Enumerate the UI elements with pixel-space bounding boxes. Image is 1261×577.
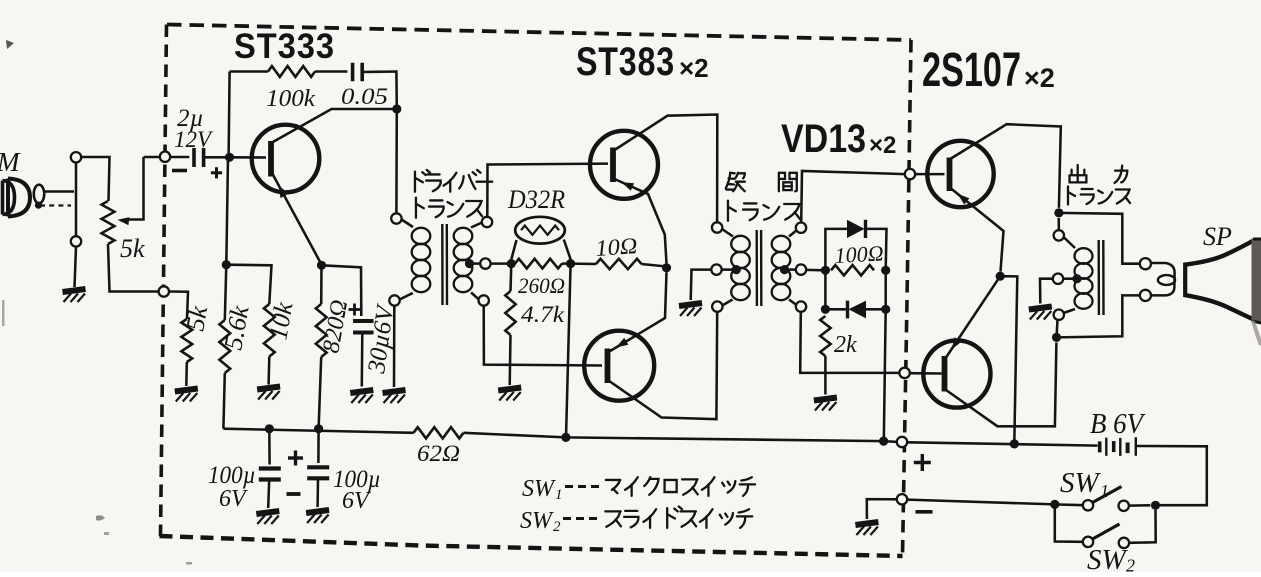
paper speck (top left) [6,40,14,49]
resistor 10k [264,304,275,357]
wire primary CT to ground [691,270,712,300]
wire center tap to terminal [470,262,481,265]
ST333 emitter arrowhead [279,185,289,198]
wire driver primary to ground [393,306,396,387]
label interstage line2 (katakana toransu) [728,201,736,221]
wire collector node to transistor [272,109,397,143]
output transformer primary winding [1075,248,1093,264]
node dot (rail / emitter feed) [1010,439,1019,448]
wire 2k to ground [824,356,827,395]
svg-text:260Ω: 260Ω [518,273,565,298]
label plus (battery rail) [914,461,931,464]
transistor 2S107 (Q5 bottom) [923,340,990,407]
wire SW1 to right node [1129,504,1150,507]
wire diode 1 to node B [866,229,887,270]
dashed enclosure border (right edge) [903,40,912,556]
svg-text:1: 1 [555,487,563,503]
wire secondary bottom to terminal [471,293,479,300]
driver transformer secondary center-tap terminal [480,258,490,268]
legend SW1 text (katakana micro switch) [606,480,620,493]
wire 0.05 to collector node [362,72,397,110]
driver transformer primary terminal (bottom) [389,295,399,305]
wire D32R node to 10ohm [571,262,596,265]
potentiometer 5k element [102,201,115,244]
wire secondary CT to node A [806,269,825,272]
Q3 collector wire [609,312,718,419]
wire lower terminal to 5k resistor [169,292,188,320]
svg-text:6V: 6V [342,488,371,514]
node dot (driver secondary center tap) [465,259,474,268]
microphone M body [3,181,15,215]
wire 5k to ground [185,362,188,386]
wire collector node to driver primary [395,109,398,213]
wire interstage secondary bottom to Q5 base [800,312,899,373]
wire emitter node to 30u cap [322,265,362,316]
ground (30u) [350,390,373,403]
node dot (output primary bottom) [1052,333,1061,342]
svg-text:0.05: 0.05 [341,84,388,109]
plus terminal (on dashed border) [897,437,907,447]
node dot (SW1 left) [1050,500,1059,509]
output secondary jack (top) [1140,258,1151,269]
wire SW2 branch (right) [1129,510,1156,543]
label minus (battery rail) [916,510,933,514]
capacitor 100u6V (left) [259,466,281,470]
Q2 emitter wire [615,179,667,263]
wire border terminal to Q5 base [910,372,942,375]
Q3 emitter arrowhead [616,338,628,348]
wire 10ohm to emitter node [642,264,667,267]
wire rail to battery [907,442,1097,445]
svg-text:SP: SP [1203,222,1232,251]
svg-text:1: 1 [1100,481,1109,501]
Q4 collector wire [951,124,1061,208]
output primary terminal (top) [1054,230,1064,240]
node dot (interstage primary center tap) [732,265,741,274]
wire wiper to input terminal [144,156,160,159]
wire secondary CT to terminal [785,268,796,271]
wire primary bottom to winding [1064,309,1076,313]
wire border terminal to Q4 base [915,173,944,176]
interstage primary center-tap terminal [711,264,721,274]
dashed enclosure border (left edge) [161,25,167,537]
transistor 2S107 (Q4 top) [927,141,993,207]
wire node B2 down to rail [884,309,886,441]
diode VD13 (bottom) [846,301,849,319]
Q4 emitter wire [951,189,1004,272]
wire driver secondary top to Q2 base [487,164,608,217]
wire mic top jack to pot [81,157,109,201]
ground (2k) [814,398,837,411]
terminal (dashed border, Q5 base) [899,368,909,378]
diode VD13 (top) [847,220,865,238]
svg-text:100µ: 100µ [208,462,256,489]
input terminal (on dashed border, top) [160,152,170,162]
output secondary jack (bottom) [1140,290,1151,301]
legend SW1 dashes [565,485,573,488]
driver transformer secondary terminal (bottom) [479,295,489,305]
wire rail to right 100u [317,429,320,463]
wire node A2 to diode 2 [825,308,846,311]
node dot (2S107 emitters) [996,272,1005,281]
wire pot bottom to input terminal [108,244,159,292]
svg-text:ST383: ST383 [576,40,675,84]
mic jack terminal (top) [71,152,81,162]
node dot (rail / diode network) [879,437,888,446]
svg-text:VD13: VD13 [781,117,866,161]
speaker connection cord [1151,263,1175,295]
wire rail to left 100u [268,429,271,465]
wire driver secondary bottom to Q3 base [484,306,602,366]
Q2 collector wire [615,115,718,223]
interstage primary terminal (bottom) [712,301,722,311]
coupling capacitor 2u12V [192,148,196,167]
node dot (rail / bias feed) [561,433,570,442]
wire emitters to rail [1000,276,1017,444]
wire minus terminal to SW1 [907,500,1083,506]
node dot (rail / left 100u) [265,424,274,433]
wire primary bottom to winding [400,293,413,300]
wire 100k to 0.05 cap [315,70,347,73]
resistor 260ohm [515,259,562,269]
ground (10k) [257,387,280,400]
ground (output CT) [1029,307,1052,320]
svg-text:2: 2 [1126,556,1135,573]
resistor 100ohm [831,265,874,275]
wire interstage secondary top to Q4 base [801,171,905,223]
wire base node down to bias node [226,157,228,264]
resistor 4.7k [505,291,515,335]
wire SW2 branch (left) [1055,504,1083,541]
speaker mouth shadow streak [1253,321,1261,345]
svg-text:100Ω: 100Ω [834,240,884,268]
battery B 6V [1098,441,1102,452]
Q3 emitter wire [609,272,667,352]
node dot (output primary center tap) [1072,274,1081,283]
capacitor 100u6V (right) [307,465,329,469]
polarity plus (100u) [288,456,303,459]
capacitor 30u6V [353,319,374,323]
mic dashed lead dot [35,202,42,209]
svg-text:ST333: ST333 [234,27,335,66]
legend SW2 text (katakana slide switch) [605,511,621,526]
node dot (output primary top) [1054,208,1063,217]
svg-text:5k: 5k [120,234,145,263]
wire mic jack vertical [75,163,78,237]
switch SW1 contact (right) [1119,501,1129,511]
switch SW1 contact (left) [1083,500,1093,510]
minus terminal (on dashed border) [897,494,907,504]
wire 30u to ground [361,333,364,387]
interstage secondary center-tap terminal [796,264,806,274]
resistor 820ohm [316,304,327,357]
ground (minus rail) [855,522,878,535]
node dot (ST333 emitter) [317,261,326,270]
mic dashed lead [40,204,71,206]
node dot (rail / 820ohm) [314,424,323,433]
wire node B2 to node B [884,270,887,309]
wire primary top to winding [722,229,733,237]
speaker horn (bottom flare) [1184,295,1254,320]
switch SW2 contact (left) [1083,537,1093,547]
wire 100k left lead [230,70,268,73]
svg-text:2k: 2k [834,332,857,358]
pot wiper wire [126,157,144,220]
ground (mic) [63,289,86,302]
switch SW1 blade [1093,487,1122,503]
wire output bottom terminal link [1057,320,1058,338]
wire input terminal to coupling cap [170,156,189,159]
svg-text:D32R: D32R [507,185,565,214]
node dot (ST333 collector) [392,104,401,113]
switch SW2 blade [1093,524,1120,539]
dashed enclosure border (top edge) [167,25,911,41]
wire output CT to terminal [1063,277,1077,280]
legend SW2 dashes [563,517,571,520]
wire minus terminal to ground [867,499,897,519]
supply rail (right part) [464,433,897,442]
wire cap to base node [204,156,228,159]
ST333 emitter wire [272,173,322,265]
node dot (D32R right) [566,259,575,268]
node dot (interstage secondary center tap) [780,265,789,274]
wire battery to right edge [1137,446,1207,505]
svg-text:B 6V: B 6V [1090,409,1146,440]
output secondary loop (bottom run) [1057,295,1141,337]
switch SW2 contact (right) [1119,538,1129,548]
dashed enclosure border (bottom edge) [160,536,903,556]
Q5 collector wire [946,343,1056,427]
svg-text:12V: 12V [174,127,214,152]
ground (left 100u) [256,511,279,524]
label driver-trans line2 (katakana toransu) [416,198,424,218]
thermistor D32R oval [515,217,565,244]
driver transformer secondary winding [454,228,473,244]
supply rail (left part) [223,429,413,433]
wire 820 to supply rail [319,357,322,429]
ground (driver primary) [383,390,406,403]
svg-text:×2: ×2 [1024,63,1055,93]
label interstage line1 (kanji dan-kan) [726,173,745,191]
paper speck (bottom) [186,562,192,565]
wire diode 2 to node B2 [866,308,886,311]
node dot (bias divider) [222,260,231,269]
polarity plus (2u cap) [211,171,222,174]
output primary terminal (bottom) [1054,310,1064,320]
label output-trans line2 (katakana toransu) [1068,187,1075,205]
svg-text:10Ω: 10Ω [595,233,639,261]
node dot (D32R left) [507,259,516,268]
polarity plus (30u) [349,308,361,311]
node dot (ST333 base) [225,153,234,162]
output secondary loop (top run) [1059,213,1140,264]
wire primary CT to terminal [722,268,737,271]
speaker horn (top flare) [1184,241,1254,265]
output transformer core [1097,240,1100,315]
Q5 emitter arrowhead [952,337,962,349]
interstage transformer secondary winding [772,236,791,252]
microphone output oval [34,185,44,204]
wire mic oval to jack line [44,190,74,193]
driver transformer primary terminal (top) [391,213,401,223]
mic jack terminal (bottom) [71,236,81,246]
svg-text:6V: 6V [219,486,248,512]
transistor ST383 (Q3 bottom) [584,331,654,401]
terminal (dashed border, Q4 base) [905,169,915,179]
node dot (bias node B) [881,266,890,275]
wire primary top to winding [402,220,414,228]
wire driver CT terminal to node [491,262,512,265]
polarity minus (100u) [287,492,301,496]
wire mic jack to ground [75,247,77,287]
paper speck (left edge) [2,300,5,326]
paper speck (bottom left) [96,515,105,520]
resistor 100k [268,66,315,77]
wire D32R right lead [564,240,571,260]
wire right 100u to ground [316,478,319,507]
svg-text:2S107: 2S107 [922,44,1021,97]
wire node A down to node A2 [824,270,827,309]
svg-text:×2: ×2 [679,53,709,83]
svg-text:SW: SW [520,508,554,534]
wire output top terminal link [1058,218,1061,230]
speaker horn throat [1183,263,1187,297]
svg-text:100k: 100k [266,86,315,112]
wire output CT to ground [1040,279,1053,304]
wire 5.6k to supply rail [223,373,224,429]
svg-text:M: M [0,147,21,177]
transistor ST333 (Q1) [252,125,320,193]
node dot (ST383 emitters) [662,263,671,272]
node dot (bias node A) [821,266,830,275]
wire base node up to 100k [229,72,230,158]
Q2 emitter arrowhead [622,182,635,191]
driver transformer primary winding [412,228,431,244]
resistor 4.7k lead [509,264,512,291]
node dot (bias node B2) [881,305,890,314]
lower terminal (on dashed border) [159,286,169,296]
ground (5k) [175,389,198,402]
resistor 5k (bias) [181,319,192,362]
resistor 2k [820,316,830,356]
ground (4.7k) [498,388,521,401]
interstage transformer primary winding [731,236,750,252]
wire bias node to 5.6k [225,265,227,320]
transistor ST383 (Q2 top) [590,131,658,199]
wire secondary top to terminal [471,223,482,228]
capacitor 0.05 [351,63,355,82]
pot wiper arrowhead [118,217,130,225]
svg-text:×2: ×2 [869,132,896,159]
polarity minus (2u cap) [172,169,187,173]
wire base node to transistor [228,156,266,159]
wire primary bottom to winding [722,300,732,306]
svg-text:SW: SW [522,476,556,502]
interstage secondary terminal (top) [796,223,806,233]
wire 10k to ground [267,357,270,385]
Q4 emitter arrowhead [958,194,970,205]
wire bias feed to rail [566,264,571,438]
Q5 emitter wire [946,276,1000,357]
resistor 62ohm [414,427,464,438]
interstage transformer core [756,230,759,306]
label output-trans line1 (kanji shutsu-ryoku) [1070,165,1087,182]
wire bias node to 10k [226,265,271,304]
svg-text:SW: SW [1060,467,1102,499]
wire emitter node to 820 [320,265,323,304]
node dot (SW right) [1151,501,1160,510]
resistor 10ohm [596,259,642,269]
wire primary top to winding [1064,237,1076,248]
interstage primary terminal (top) [712,222,722,232]
resistor 5.6k [219,320,230,373]
label driver-trans line1 (katakana doraibaa) [415,172,423,192]
wire node A up to diode 1 [825,229,847,270]
driver transformer core [441,224,444,305]
svg-text:4.7k: 4.7k [521,302,565,327]
thermistor D32R element [521,226,559,235]
output primary center-tap terminal [1053,274,1063,284]
driver transformer secondary terminal (top) [482,217,492,227]
svg-text:2: 2 [553,519,561,535]
wire D32R left lead [511,240,516,259]
node dot (bias node A2) [821,305,830,314]
interstage secondary terminal (bottom) [796,301,806,311]
ground (interstage CT) [679,303,702,316]
wire 4.7k to ground [508,335,511,385]
svg-text:62Ω: 62Ω [417,441,460,466]
ground (right 100u) [306,510,329,523]
svg-text:SW: SW [1087,544,1129,572]
wire secondary bottom to terminal [789,300,797,306]
wire left 100u to ground [268,480,269,509]
wire secondary top to terminal [789,230,798,237]
speaker horn mouth [1252,239,1261,322]
